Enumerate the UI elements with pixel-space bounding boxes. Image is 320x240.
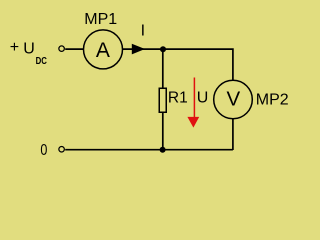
svg-text:A: A [96, 39, 110, 62]
svg-text:U: U [197, 90, 209, 107]
svg-text:DC: DC [36, 56, 47, 67]
svg-text:U: U [23, 40, 35, 57]
svg-text:MP2: MP2 [256, 92, 289, 109]
svg-text:+: + [10, 39, 19, 56]
svg-text:I: I [141, 22, 145, 39]
svg-text:V: V [227, 88, 241, 111]
svg-text:0: 0 [40, 142, 47, 159]
svg-text:MP1: MP1 [84, 11, 117, 28]
svg-text:R1: R1 [168, 90, 188, 107]
